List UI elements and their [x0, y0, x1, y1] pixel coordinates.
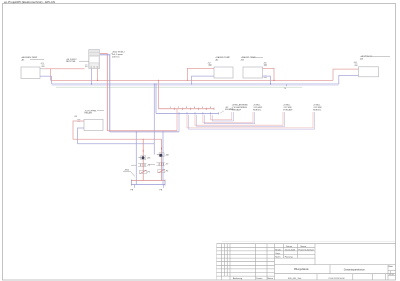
svg-text:RELAIS: RELAIS — [85, 112, 93, 115]
svg-text:-X6: -X6 — [147, 165, 151, 167]
svg-text:Bearb.: Bearb. — [275, 249, 282, 252]
svg-text:10: 10 — [391, 274, 394, 276]
svg-text:-B4: -B4 — [360, 58, 364, 60]
svg-text:24V DC: 24V DC — [112, 56, 120, 58]
svg-text:RUECKL.: RUECKL. — [253, 109, 262, 111]
svg-text:-M1: -M1 — [147, 158, 151, 160]
svg-text:Name: Name — [301, 246, 307, 248]
svg-text:ep Projekt05 (Elektrotechnik): ep Projekt05 (Elektrotechnik) - EPLAN — [4, 0, 55, 4]
svg-text:5: 5 — [202, 107, 203, 109]
svg-text:-F2: -F2 — [165, 171, 169, 173]
svg-text:21.01.2013: 21.01.2013 — [285, 250, 296, 252]
svg-text:Änderung: Änderung — [233, 277, 243, 280]
svg-text:VORLAUF: VORLAUF — [232, 108, 242, 111]
svg-text:-M2: -M2 — [165, 155, 169, 157]
svg-text:2: 2 — [178, 107, 179, 109]
svg-text:-X5: -X5 — [74, 116, 78, 118]
svg-text:-B3: -B3 — [241, 59, 245, 61]
svg-text:Frank Schönherr: Frank Schönherr — [299, 249, 315, 252]
svg-text:Name: Name — [268, 278, 274, 280]
svg-text:Blatt: Blatt — [389, 265, 394, 268]
svg-text:-B2: -B2 — [215, 59, 219, 61]
svg-text:1: 1 — [170, 107, 171, 109]
svg-text:-W12: -W12 — [124, 169, 130, 171]
svg-text:-B1: -B1 — [21, 60, 25, 62]
svg-text:Gepr.: Gepr. — [275, 252, 281, 255]
svg-text:4: 4 — [194, 107, 195, 109]
svg-text:VORLAUF: VORLAUF — [283, 108, 293, 111]
svg-text:6: 6 — [210, 107, 211, 109]
svg-text:PE: PE — [131, 190, 134, 192]
svg-text:RUECKL.: RUECKL. — [313, 109, 322, 111]
svg-text:Gesamtspannbeton: Gesamtspannbeton — [344, 269, 366, 272]
svg-text:Norm: Norm — [275, 256, 280, 259]
svg-text:Pillergebäude: Pillergebäude — [294, 268, 309, 271]
svg-text:Datum: Datum — [286, 245, 292, 248]
svg-text:N: N — [285, 88, 287, 90]
svg-text:Datum: Datum — [256, 277, 262, 280]
svg-text:-F1: -F1 — [147, 172, 151, 174]
svg-text:-X7: -X7 — [165, 164, 169, 166]
svg-text:21.01.2013 16:02: 21.01.2013 16:02 — [328, 278, 345, 280]
svg-text:3: 3 — [186, 107, 187, 109]
svg-text:Planung: Planung — [285, 257, 293, 259]
svg-text:F05_001_Titel: F05_001_Titel — [288, 277, 302, 280]
svg-text:NETZTEIL: NETZTEIL — [66, 61, 77, 63]
svg-text:PE: PE — [160, 190, 163, 192]
